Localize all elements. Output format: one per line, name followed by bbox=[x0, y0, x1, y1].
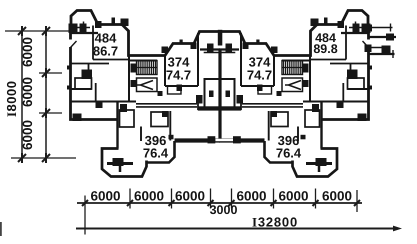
vestibule second wall y=52.5 bbox=[204, 52, 220, 54]
bay inner wall y=33 bbox=[71, 32, 99, 34]
bottom tick x=85 (long, crosses total line) bbox=[84, 196, 86, 235]
svg-text:6000: 6000 bbox=[236, 189, 266, 204]
outer wall: top-left bay window bbox=[71, 11, 98, 34]
stair landing box bbox=[137, 78, 158, 92]
interior wall x=95.7 bbox=[95, 83, 97, 102]
bottom total dimension line with right arrow bbox=[76, 228, 399, 230]
bath room box bbox=[75, 78, 92, 89]
wall y=89 bbox=[71, 88, 92, 90]
entrance post right bbox=[233, 136, 241, 143]
right balcony 2 upper line bbox=[368, 47, 391, 49]
extension line y=73 bbox=[39, 72, 62, 74]
corridor door jamb bbox=[96, 102, 103, 109]
vestibule bottom wall y=49.5 bbox=[200, 48, 220, 50]
tick at (22,158) bbox=[18, 153, 26, 163]
bay door cross bbox=[80, 24, 87, 33]
corner post left wall bottom bbox=[73, 114, 82, 122]
closet box 2 of 396 unit bbox=[151, 112, 168, 127]
svg-text:I32800: I32800 bbox=[252, 215, 298, 230]
stair top wall bbox=[130, 60, 157, 62]
left dimension outer vertical line bbox=[21, 31, 23, 158]
asterisk mark after right 396 bbox=[301, 135, 306, 140]
svg-text:6000: 6000 bbox=[20, 120, 35, 150]
small stub above top wall bbox=[112, 18, 116, 25]
window nub 2 on left wall bbox=[67, 86, 71, 90]
svg-text:6000: 6000 bbox=[134, 189, 164, 204]
balcony 2 wall post bbox=[365, 45, 372, 53]
wall x=93 left of 484 room bbox=[92, 26, 94, 60]
extension line y=31 bbox=[5, 30, 70, 32]
wall x=170.3 below closet2 bbox=[169, 111, 171, 141]
left dimension inner vertical line bbox=[45, 31, 47, 158]
party wall lower bbox=[218, 49, 221, 140]
door gap in left wall bbox=[69, 40, 72, 48]
corner post at bay chamfer base bbox=[191, 43, 197, 50]
svg-text:6000: 6000 bbox=[278, 189, 308, 204]
stair door post lower bbox=[131, 80, 137, 87]
bottom tick x=315.5 bbox=[315, 189, 317, 209]
asterisk mark after left 396 bbox=[169, 135, 174, 140]
svg-text:3000: 3000 bbox=[210, 203, 238, 217]
bottom tick x=357 (long) bbox=[356, 190, 358, 212]
outer wall: bottom-left pentagon bay bbox=[102, 149, 147, 177]
tick at (46,158) bbox=[42, 153, 50, 163]
outer wall: top wall of 484 unit bbox=[98, 25, 220, 56]
svg-text:74.7: 74.7 bbox=[247, 68, 272, 83]
svg-text:I8000: I8000 bbox=[4, 81, 19, 117]
svg-text:89.8: 89.8 bbox=[313, 42, 337, 56]
outer wall: left side wall bbox=[71, 33, 118, 120]
corner post notch top bbox=[121, 19, 129, 27]
bay window mullion cross bbox=[107, 158, 133, 172]
bottom tick x=210.5 bbox=[210, 189, 212, 209]
svg-text:76.4: 76.4 bbox=[143, 146, 169, 161]
interior wall x=129 bbox=[128, 56, 130, 102]
wall y=86 bottom of 374 room bbox=[165, 85, 198, 87]
balcony 2 end post bbox=[382, 46, 391, 54]
left edge smudge bbox=[0, 222, 2, 236]
corner post at (98,24.5) bbox=[95, 21, 102, 28]
center room jamb bbox=[209, 91, 214, 98]
interior wall y=59.5 bbox=[93, 59, 130, 61]
corner post top-left bbox=[69, 24, 78, 34]
bottom tick x=171.5 bbox=[171, 189, 173, 209]
outer wall: 396 unit bottom edge bbox=[146, 141, 175, 163]
balcony 1 end tick bbox=[390, 24, 392, 32]
extension line y=113 bbox=[39, 112, 62, 114]
svg-text:6000: 6000 bbox=[20, 77, 35, 107]
svg-text:6000: 6000 bbox=[175, 189, 205, 204]
bottom tick x=130 bbox=[129, 189, 131, 209]
center small room walls bbox=[205, 79, 221, 108]
balcony 1 wall post bbox=[365, 25, 373, 32]
door threshold rect below 374 room bbox=[168, 86, 182, 94]
balcony 2 end tick bbox=[392, 50, 394, 58]
door post black bbox=[82, 70, 93, 80]
tick at (46,113) bbox=[42, 108, 50, 118]
tick at (22,31) bbox=[18, 26, 26, 36]
entrance white slot in bottom wall bbox=[215, 139, 233, 142]
stair door post upper bbox=[131, 64, 137, 73]
interior wall x=88.5 bbox=[88, 64, 90, 75]
svg-text:6000: 6000 bbox=[322, 189, 352, 204]
balcony 1 end post bbox=[386, 34, 394, 41]
wall x=198 bbox=[197, 33, 199, 86]
bottom tick x=231.5 bbox=[231, 189, 233, 209]
interior wall y=63.5 bbox=[71, 63, 110, 65]
svg-text:76.4: 76.4 bbox=[276, 146, 302, 161]
corridor double band bbox=[136, 103, 197, 105]
bottom tick slashes bbox=[82, 200, 360, 206]
svg-text:6000: 6000 bbox=[90, 189, 120, 204]
wall x=165 between notch and 374 room bbox=[164, 56, 166, 87]
wall x=141 bbox=[140, 127, 142, 142]
vestibule door jamb black bbox=[207, 44, 214, 54]
svg-text:86.7: 86.7 bbox=[93, 44, 118, 59]
corner post at (165,49) bbox=[162, 47, 169, 54]
bottom dimension line bbox=[77, 202, 362, 204]
party wall upper bbox=[219, 32, 222, 44]
tick at (46,31) bbox=[42, 26, 50, 36]
nub on 374 top wall bbox=[180, 40, 183, 45]
closet box 1 of 396 unit bbox=[120, 110, 135, 127]
svg-text:6000: 6000 bbox=[20, 37, 35, 67]
window nub 1 on left wall bbox=[67, 66, 71, 70]
stair chevron right bbox=[285, 81, 301, 90]
bottom tick x=273.5 bbox=[273, 189, 275, 209]
entrance post left bbox=[208, 136, 216, 143]
dark band below vestibule bbox=[198, 106, 220, 110]
stair chevron left bbox=[137, 81, 153, 90]
right balcony 1 lower line bbox=[368, 36, 396, 38]
outer wall: center bottom wall bbox=[175, 138, 221, 142]
right balcony 2 lower line bbox=[368, 53, 395, 55]
door jamb at 374 threshold bbox=[177, 85, 183, 92]
stair tread hatch block bbox=[137, 61, 158, 75]
extension line y=158 bbox=[11, 157, 76, 159]
party wall black head bbox=[218, 30, 223, 46]
tick at (46,73) bbox=[42, 68, 50, 78]
right balcony 1 upper line bbox=[368, 27, 393, 29]
mirrored right half bbox=[219, 11, 372, 177]
corridor wall y=101.5 bbox=[71, 101, 137, 103]
svg-text:74.7: 74.7 bbox=[166, 68, 191, 83]
corridor corner post bbox=[196, 95, 203, 104]
